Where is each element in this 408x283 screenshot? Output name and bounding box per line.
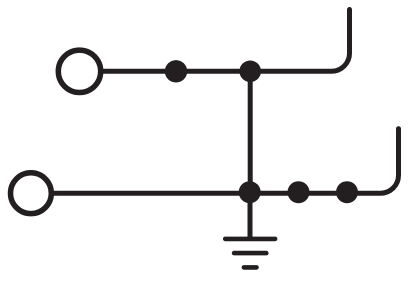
terminal circle (bottom feed-through) [11,173,52,214]
node dot bottom junction [239,181,261,203]
ground bar 3 [244,265,257,270]
wire bottom conductor with corner up to plug [54,129,399,194]
node dot bottom 3 [336,181,358,203]
ground bar 2 [234,251,266,256]
ground bar 1 [225,237,275,242]
node dot bottom 2 [288,181,310,203]
node dot top junction [239,61,261,83]
node dot top 1 [165,60,187,82]
terminal circle (top feed-through) [58,50,100,92]
wire top conductor with corner up to plug [103,10,349,72]
wire ground stem [248,193,253,239]
wire vertical bridge [248,71,253,193]
